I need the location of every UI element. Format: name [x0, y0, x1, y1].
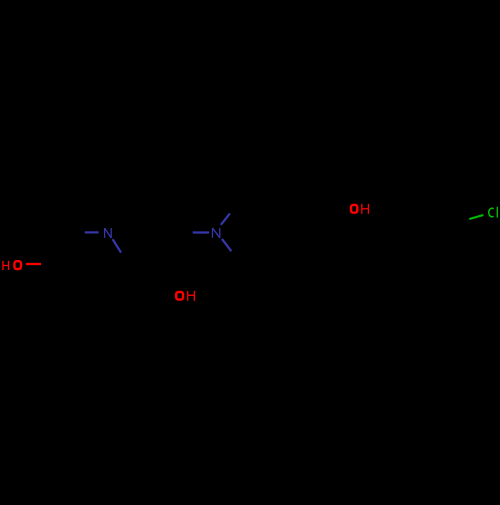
bond N1-C (blue, down-right) [113, 239, 121, 252]
bond C-Cl (green half) [469, 215, 483, 219]
atom N2 label [213, 228, 220, 238]
bond N2-C ring (blue, down-right) [222, 239, 231, 251]
bond O-C of hydroxyethyl (red half) [26, 263, 41, 265]
label Cl (chlorine) [489, 207, 497, 218]
label HO (hydroxyethyl oxygen) [3, 261, 21, 270]
bond C-N2 (blue, horizontal) [193, 231, 210, 233]
bond N2-C ring (blue, up-right) [221, 213, 230, 224]
atom N1 label [105, 228, 112, 238]
label OH (piperidin-4-ol) [351, 204, 368, 214]
label OH (center, propan-2-ol) [176, 291, 194, 301]
bond C-N1 (blue) [85, 231, 99, 233]
